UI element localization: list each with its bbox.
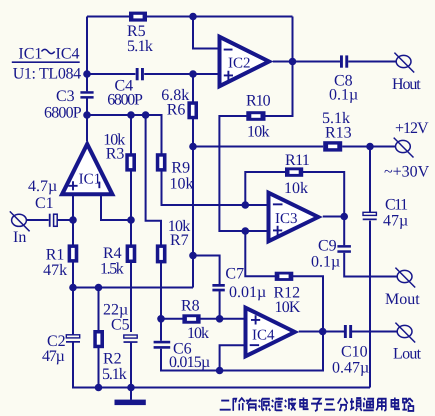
node R8 right / IC4 + [216, 315, 224, 323]
node IC4 output [319, 328, 327, 336]
wire IC2 - input branch [193, 17, 219, 49]
wire R3 R4 column [130, 115, 132, 332]
svg-text:~+30V: ~+30V [384, 164, 430, 181]
op-amp IC3 [267, 190, 323, 245]
capacitor C11 [363, 212, 377, 220]
capacitor C1 [49, 214, 57, 227]
wire bias rail y287 [73, 287, 193, 289]
node C1 / IC1 + [69, 216, 77, 224]
wire C5 to ground rail [130, 343, 132, 388]
wire IC2 output top vertical [292, 17, 294, 62]
op-amp IC2 [218, 34, 274, 90]
terminal +12V [394, 138, 414, 158]
svg-text:Mout: Mout [385, 291, 420, 308]
node bias C7 branch [189, 252, 197, 260]
svg-text:R10: R10 [246, 93, 271, 110]
resistor R3 [125, 153, 136, 171]
capacitor C6 [154, 341, 171, 349]
svg-text:Hout: Hout [392, 76, 421, 93]
capacitor C5 [124, 335, 138, 343]
plus sign IC1 [68, 181, 77, 190]
node IC3 output [340, 213, 348, 221]
wire IC1 + input / R1 column [72, 194, 74, 288]
node R1 bottom rail [69, 284, 77, 292]
resistor R2 [93, 330, 104, 348]
caption 二阶有源滤波电子三分频通用电路 (drawn strokes) [220, 398, 414, 412]
svg-text:U1: TL084: U1: TL084 [13, 65, 81, 82]
terminal Mout [395, 268, 415, 288]
resistor R8 [182, 314, 200, 323]
svg-text:C10: C10 [341, 344, 368, 361]
svg-text:R1: R1 [46, 246, 65, 263]
minus sign IC3 [273, 203, 283, 205]
op-amp IC4 [244, 305, 300, 360]
node IC2 output [289, 58, 297, 66]
svg-text:+12V: +12V [395, 120, 429, 137]
svg-text:C9: C9 [318, 238, 337, 255]
capacitor C7 [212, 284, 224, 291]
wire C9 to Mout [344, 253, 397, 277]
wire R12 net [245, 231, 323, 332]
wire C4 row left [87, 73, 135, 75]
wire R8 row to IC4 + [161, 318, 245, 320]
svg-text:C5: C5 [111, 317, 130, 334]
wire R13 to +12V terminal [342, 146, 396, 148]
wire C11 bottom column [369, 221, 371, 388]
wire x87 above C3 [86, 17, 88, 92]
capacitor C9 [337, 245, 351, 253]
svg-text:IC3: IC3 [275, 211, 298, 227]
ground [115, 400, 146, 406]
wire bias to C7 [193, 256, 220, 285]
node IC2 + / R6 top [189, 70, 197, 78]
resistor R12 [275, 272, 294, 281]
wire bias to R13 [193, 146, 323, 148]
node IC3 + input [242, 227, 250, 235]
node R7 branch [142, 111, 150, 119]
svg-text:C11: C11 [385, 197, 408, 214]
node IC1 - / R3 R4 [127, 216, 135, 224]
svg-text:R13: R13 [325, 125, 352, 142]
wire R2 column [98, 288, 100, 388]
svg-text:IC4: IC4 [252, 328, 275, 344]
wire R10 net to IC3 + [219, 62, 292, 232]
svg-text:C1: C1 [35, 195, 54, 212]
wire IC1 - input branch [101, 194, 131, 221]
svg-text:R8: R8 [181, 298, 200, 315]
wire IC4 out to C10 [299, 331, 344, 333]
terminal In [10, 211, 30, 231]
svg-text:10k: 10k [284, 180, 308, 197]
node R8 left [157, 315, 165, 323]
svg-text:10k: 10k [187, 325, 209, 342]
svg-text:47µ: 47µ [42, 348, 65, 365]
wire C1 to node [57, 219, 73, 221]
svg-text:0.47µ: 0.47µ [332, 360, 369, 377]
wire top loop R5 row [87, 16, 293, 18]
wire ground rail [73, 342, 370, 387]
svg-text:R4: R4 [103, 245, 122, 262]
svg-text:6800P: 6800P [44, 105, 82, 122]
wire C11 to +12V node [369, 147, 371, 212]
svg-text:10k: 10k [170, 176, 194, 193]
capacitor C3 [80, 91, 93, 98]
node IC1 output [83, 111, 91, 119]
wire C7 to IC4 + [219, 291, 221, 319]
node IC3 - input [242, 201, 250, 209]
capacitor C10 [344, 325, 352, 338]
resistor R1 [68, 244, 79, 262]
svg-text:0.1µ: 0.1µ [329, 87, 358, 104]
svg-text:Lout: Lout [393, 346, 422, 363]
minus sign IC4 [250, 344, 259, 346]
svg-text:5.1k: 5.1k [127, 38, 153, 55]
resistor R11 [285, 167, 303, 176]
wire x87 C3 to IC1 output [86, 98, 88, 141]
wire R7 jog column [146, 115, 161, 341]
terminal Hout [394, 53, 414, 73]
svg-text:47µ: 47µ [383, 213, 408, 230]
minus sign IC2 [224, 49, 233, 51]
capacitor C8 [340, 55, 348, 67]
resistor R10 [246, 111, 265, 121]
node C4 branch [83, 70, 91, 78]
svg-text:C7: C7 [225, 266, 244, 283]
svg-text:In: In [13, 229, 26, 246]
svg-text:R11: R11 [285, 152, 310, 169]
svg-text:47k: 47k [43, 262, 67, 279]
minus tick IC1 [98, 182, 100, 189]
node R2 top rail [95, 284, 103, 292]
resistor R7 [156, 244, 167, 263]
wire C4 row right to IC2 + [144, 73, 219, 75]
plus sign IC3 [273, 226, 282, 235]
svg-text:IC1: IC1 [79, 172, 102, 188]
svg-text:1.5k: 1.5k [100, 261, 124, 278]
svg-text:0.1µ: 0.1µ [311, 254, 340, 271]
svg-text:R2: R2 [103, 351, 122, 368]
plus sign IC4 [251, 315, 260, 324]
svg-text:R3: R3 [106, 145, 125, 162]
svg-text:10k: 10k [247, 124, 270, 141]
svg-text:C3: C3 [56, 88, 75, 105]
wire R11 feedback net [245, 172, 344, 217]
svg-text:5.1k: 5.1k [102, 366, 127, 383]
wire C6 bottom feedback row [161, 332, 323, 371]
svg-text:R6: R6 [167, 102, 186, 119]
node R2 ground [95, 384, 103, 392]
svg-text:0.01µ: 0.01µ [229, 284, 266, 301]
wire ground stub [130, 388, 132, 400]
svg-text:R7: R7 [170, 232, 189, 249]
wire bias column x193 [192, 74, 194, 288]
terminal Lout [395, 323, 415, 343]
svg-text:R9: R9 [171, 159, 190, 176]
resistor R6 [187, 101, 198, 119]
capacitor C4 [136, 68, 144, 80]
wire IC3 output [323, 216, 344, 218]
node +12V rail [366, 143, 374, 151]
wire C8 to Hout [348, 61, 396, 63]
node C5 ground [127, 384, 135, 392]
svg-text:6800P: 6800P [107, 92, 143, 109]
svg-text:IC1: IC1 [18, 46, 42, 63]
wire C2 top [72, 288, 74, 335]
svg-text:0.015µ: 0.015µ [169, 354, 210, 371]
resistor R13 [323, 141, 342, 151]
node IC4 - feedback [216, 367, 224, 375]
svg-text:IC4: IC4 [56, 46, 80, 63]
wire C10 to Lout [352, 331, 398, 333]
tilde wave [42, 49, 55, 53]
svg-text:IC2: IC2 [228, 56, 251, 72]
resistor R4 [126, 244, 137, 263]
op-amp IC1 [59, 140, 116, 197]
node R5 right junction [189, 13, 197, 21]
wire IC1 out row / R9 to IC3 - [87, 115, 268, 205]
wire IC4 - branch [220, 345, 245, 370]
svg-text:10K: 10K [275, 299, 301, 316]
wire IC2 out to C8 [273, 61, 340, 63]
node bias R13 [189, 143, 197, 151]
resistor R5 [129, 12, 147, 22]
wire In to C1 [26, 219, 49, 221]
wire IC3 out to C9 [343, 217, 345, 246]
capacitor C2 [66, 335, 80, 343]
plus sign IC2 [224, 71, 233, 80]
svg-text:4.7µ: 4.7µ [28, 178, 57, 195]
divider line under IC1~IC4 [12, 61, 80, 63]
node R3 top [127, 111, 135, 119]
resistor R9 [156, 153, 167, 171]
